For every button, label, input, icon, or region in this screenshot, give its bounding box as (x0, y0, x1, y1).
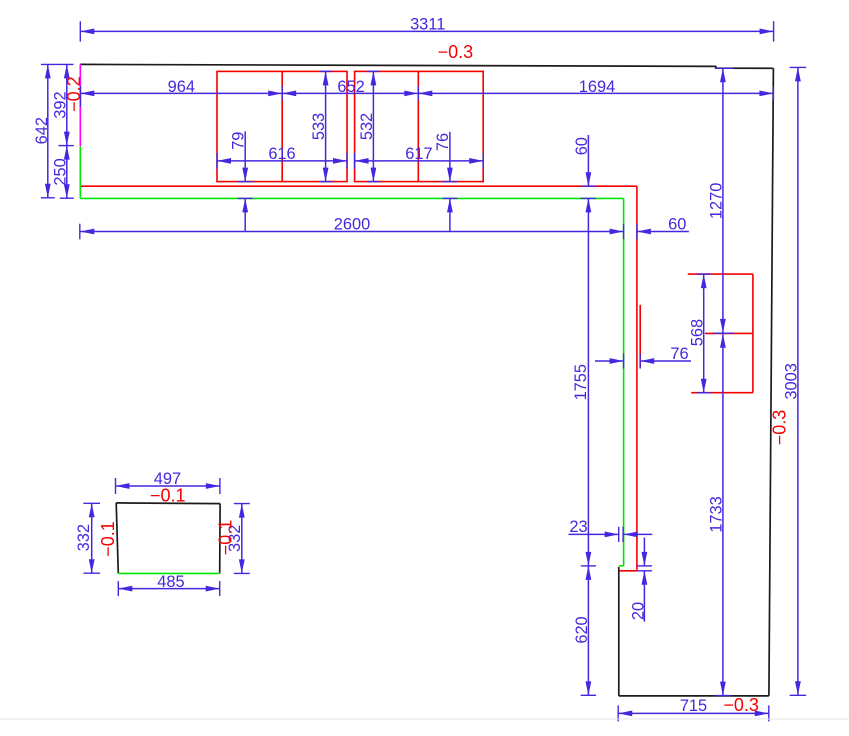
svg-text:−0.1: −0.1 (216, 520, 236, 556)
dim 23 left line (569, 533, 619, 535)
svg-text:60: 60 (668, 215, 686, 233)
countertop top edge (black) (80, 64, 773, 68)
sink rect right edge (black) (219, 504, 221, 574)
dim 20 upper line (643, 538, 645, 566)
dim 332 right line (241, 504, 243, 574)
dim 485 line (118, 588, 219, 590)
svg-text:60: 60 (573, 137, 591, 155)
cutout B rectangle (red) (355, 71, 484, 181)
red short segment near hob (639, 305, 641, 368)
dim 964 arrows and ticks (80, 91, 94, 97)
cutout A rectangle (red) (217, 71, 347, 181)
front edge vertical (green) (623, 198, 625, 566)
sink rect bottom edge (green) (118, 572, 219, 574)
countertop bottom edge (black) (619, 695, 769, 697)
svg-text:715: 715 (680, 697, 707, 715)
dim 2600 line (80, 231, 623, 233)
dim 620 line (587, 566, 589, 696)
svg-text:1733: 1733 (707, 496, 725, 532)
dim 76 lower line (cutout B) (449, 198, 451, 231)
dim 1270 line (722, 68, 724, 333)
red offset line horizontal (81, 185, 637, 187)
svg-text:76: 76 (670, 345, 688, 363)
dim 617 line (355, 160, 484, 162)
dim 60 vertical line (587, 135, 589, 186)
svg-text:79: 79 (230, 132, 248, 150)
svg-text:3003: 3003 (783, 363, 801, 399)
dim 23 right line (624, 533, 653, 535)
dim 79 lower line (244, 198, 246, 231)
cutout C centerline (red) (705, 332, 753, 334)
svg-text:617: 617 (405, 145, 432, 163)
cutout C top edge (red) (688, 273, 753, 275)
svg-text:76: 76 (434, 133, 452, 151)
dim 23 ticks (618, 527, 620, 542)
svg-text:642: 642 (33, 117, 51, 144)
svg-text:250: 250 (52, 158, 70, 185)
svg-text:964: 964 (168, 78, 195, 96)
dim 3311 line (80, 30, 773, 32)
svg-text:23: 23 (569, 518, 587, 536)
svg-text:532: 532 (358, 113, 376, 140)
dim 79 upper line (244, 132, 246, 182)
dim 60 horizontal arrow line (637, 231, 689, 233)
dim 533 line (325, 71, 327, 181)
sink rect left edge (black) (116, 503, 118, 573)
dim 250 line (66, 146, 68, 199)
dim 652 arrows and tick (282, 91, 296, 97)
dim 60 horizontal ticks (623, 224, 625, 240)
dim 568 line (703, 274, 705, 393)
svg-text:1270: 1270 (708, 183, 726, 219)
svg-text:568: 568 (689, 319, 707, 346)
cutout C right edge (red) (752, 274, 754, 393)
cutout B centerline (red) (417, 71, 419, 181)
dim 76 right left-line (595, 360, 624, 362)
dim 964-652-1694 shared line (80, 92, 773, 94)
dim 76 right arrow-line (640, 360, 691, 362)
dim 20 ticks (637, 565, 652, 567)
svg-text:−0.3: −0.3 (770, 410, 790, 446)
svg-text:1694: 1694 (579, 78, 615, 96)
dim 642 ticks (41, 63, 74, 65)
dim 392 line (66, 64, 68, 145)
front edge horizontal (green) (80, 197, 623, 199)
dim 3003 line (797, 67, 799, 695)
svg-text:652: 652 (337, 78, 364, 96)
svg-text:485: 485 (157, 573, 184, 591)
dim 20 lower line (643, 571, 645, 622)
svg-text:20: 20 (630, 602, 648, 620)
svg-text:616: 616 (268, 145, 295, 163)
red offset line vertical (636, 186, 638, 571)
dim 250 bottom tick (60, 197, 74, 199)
red offset step (619, 570, 637, 572)
svg-text:3311: 3311 (410, 15, 445, 33)
dim 616 line (217, 160, 347, 162)
svg-text:−0.3: −0.3 (723, 695, 759, 715)
cutout C bottom edge (red) (691, 392, 753, 394)
dim 76 upper line (cutout B) (449, 132, 451, 182)
dim 1733 line (722, 333, 724, 695)
svg-text:332: 332 (75, 524, 93, 551)
svg-text:−0.1: −0.1 (150, 485, 186, 505)
dim 642 line (47, 64, 49, 197)
svg-text:533: 533 (310, 113, 328, 140)
left edge upper part (magenta) (79, 64, 81, 146)
sink rect top edge (black) (116, 502, 220, 505)
countertop right edge (black) (769, 68, 774, 696)
dim 332 left line (91, 503, 93, 573)
svg-text:−0.1: −0.1 (98, 521, 118, 557)
bottom section left edge (black) (618, 567, 620, 696)
dim 1694 arrows and tick (418, 91, 432, 97)
dim 76 right ticks (623, 353, 625, 368)
svg-text:2600: 2600 (334, 216, 370, 234)
bottom window separator line (0, 718, 849, 720)
dim 1755 line (587, 198, 589, 566)
front edge step (green) (619, 565, 624, 567)
cutout A centerline (red) (281, 71, 283, 181)
left edge lower part (green) (79, 146, 81, 198)
svg-text:1755: 1755 (572, 364, 590, 400)
dim 392-250 junction tick (58, 145, 73, 147)
svg-text:−0.3: −0.3 (438, 42, 474, 62)
svg-text:620: 620 (573, 616, 591, 643)
dim 715 line (618, 712, 769, 714)
dim 497 line (116, 485, 220, 487)
dim 532 line (372, 71, 374, 181)
